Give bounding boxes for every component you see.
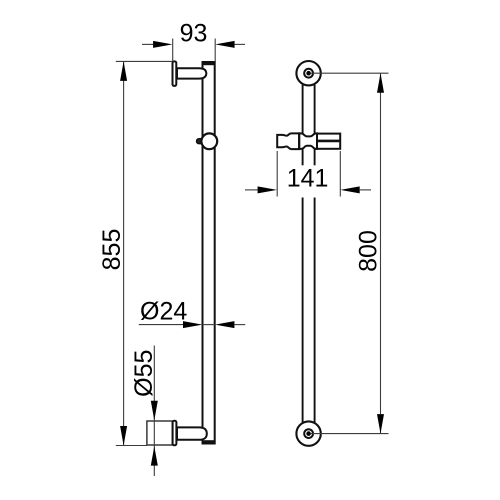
rail front view lower segment: [302, 198, 304, 423]
slider divider line right: [316, 133, 318, 149]
wire: 141 left extension line: [276, 151, 278, 197]
bottom mount circle (front view): [296, 421, 320, 445]
wire: O24 dimension line left tail: [139, 324, 184, 326]
arrow: 93 left (points right): [153, 41, 172, 48]
arrow: O24 right (points left): [215, 321, 234, 328]
wire: 93 right extension line: [214, 39, 216, 62]
rail (side view): [203, 62, 215, 444]
slider divider line left: [298, 133, 300, 149]
slider middle saddle (front view): [299, 133, 317, 149]
wire: 855 vertical dimension line: [123, 61, 125, 445]
top mount center dot: [306, 71, 311, 76]
slider knob nub (side view): [197, 139, 204, 144]
bottom wall plate: [173, 421, 177, 445]
wire: 93 left extension line: [172, 39, 174, 62]
wire: 93 dimension line right tail: [235, 43, 245, 45]
wire: 93 dimension line left tail: [142, 43, 154, 45]
top mount circle (front view): [296, 61, 320, 85]
arrow: 855 bottom (points down): [120, 426, 127, 446]
arrow: 800 bottom (points down): [377, 414, 384, 434]
wire: O24 line across rail: [202, 324, 215, 326]
top wall plate (side view): [173, 61, 177, 86]
rail front view middle segment: [302, 148, 304, 166]
slider left grip (front view): [277, 133, 299, 149]
arrow: 141 left (points right): [258, 186, 277, 193]
svg-text:Ø55: Ø55: [130, 350, 158, 397]
wire: O55 leader line: [153, 346, 155, 477]
arrow: 800 top (points up): [377, 73, 384, 93]
wire: 855 bottom extension line: [116, 445, 147, 447]
bottom mount inner ring: [304, 429, 313, 438]
svg-text:141: 141: [287, 164, 329, 192]
wire: 800 vertical dimension line: [380, 73, 382, 433]
bottom mount arm: [177, 427, 207, 439]
top mount inner ring: [304, 69, 313, 78]
wire: 855 top extension line: [116, 60, 173, 62]
svg-text:800: 800: [355, 230, 383, 272]
arrow: 93 right (points left): [215, 41, 234, 48]
svg-text:93: 93: [180, 19, 208, 47]
top mount arm: [177, 68, 206, 78]
bottom mount center dot: [306, 431, 311, 436]
svg-text:855: 855: [98, 229, 126, 271]
svg-text:Ø24: Ø24: [140, 297, 187, 325]
bottom mount cylinder (side view): [147, 421, 173, 445]
slider right body mid band: [317, 140, 340, 143]
slider knob circle (side view): [201, 133, 217, 149]
arrow: 855 top (points up): [120, 61, 127, 81]
arrow: O55 lower (points up): [151, 446, 158, 465]
slider right body (front view): [317, 134, 340, 149]
rail front view upper segment: [303, 85, 315, 423]
wire: 800 bottom leader from circle center: [311, 433, 389, 435]
arrow: O24 left (points right): [183, 321, 202, 328]
wire: 141 dimension line left tail: [245, 189, 259, 191]
rail top end cap: [203, 62, 215, 66]
wire: 141 dimension line right tail: [360, 189, 371, 191]
wire: 141 right extension line: [339, 151, 341, 197]
rail bottom end cap: [203, 440, 215, 444]
wire: 800 top leader from circle center: [311, 72, 389, 74]
arrow: 141 right (points left): [340, 186, 359, 193]
arrow: O55 upper (points down): [151, 401, 158, 420]
wire: O24 dimension line right tail: [234, 324, 245, 326]
